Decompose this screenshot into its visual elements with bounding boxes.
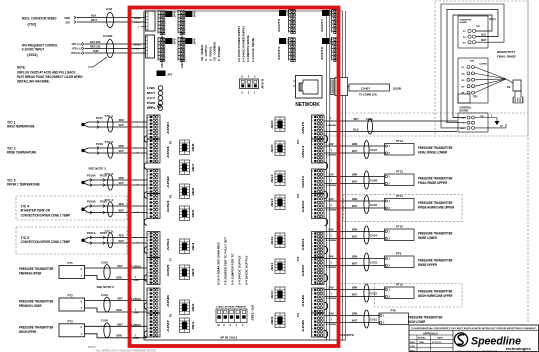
node signal legend [200,42,221,61]
wire probe [475,79,506,86]
svg-text:SEE NOTE 2: SEE NOTE 2 [97,285,115,289]
jumper JB11 [272,259,285,274]
jumper JB8 [180,140,196,155]
svg-text:P220A: P220A [87,200,96,204]
terminal block AIN2 [147,169,170,194]
wire jumper hook [144,192,147,199]
terminal block AIN6 [147,288,170,313]
svg-text:TRANSMITTER: TRANSMITTER [460,19,472,22]
connector P8 [170,313,173,317]
wire network bus [327,9,330,341]
wire jumper hook [144,275,147,282]
wire BRN PT3 [85,334,148,341]
svg-text:JP3: JP3 [174,11,177,18]
connector KS1 [149,104,162,109]
svg-text:JB16: JB16 [272,119,274,129]
svg-text:PAST BREAK POINT. RECONNECT CA: PAST BREAK POINT. RECONNECT CA205 WHEN [17,75,83,79]
svg-text:CA24: CA24 [370,234,377,238]
wire RED 202 [85,45,146,49]
svg-text:CA28: CA28 [370,179,377,183]
cable T/C 4 [105,198,114,217]
wire RED T/C 1 [88,118,147,124]
svg-text:PT2: PT2 [68,294,73,298]
svg-text:JB8: JB8 [193,142,195,152]
svg-text:AGND: AGND [134,44,141,47]
cable CA20 [101,319,110,338]
svg-text:P221A: P221A [87,231,96,235]
wire BLK 200 [85,40,146,44]
svg-text:24V: 24V [329,173,335,176]
svg-text:AIN1: AIN1 [167,144,170,158]
cable CA8 [106,7,114,28]
svg-text:JB13: JB13 [272,197,274,207]
svg-text:RED: RED [119,144,124,148]
svg-text:24V: 24V [329,143,335,146]
svg-text:AIN14: AIN14 [302,145,305,158]
svg-text:JB7: JB7 [193,162,195,172]
wire jumper hook [325,191,328,199]
pressure transmitter PT3 [59,319,85,337]
svg-text:CONVECTION DRYER ZONE 2 TEMP.: CONVECTION DRYER ZONE 2 TEMP. [21,240,71,244]
svg-text:PRESSURE TRANSMITTER: PRESSURE TRANSMITTER [418,290,453,294]
svg-text:0-10VDC INPUT: 0-10VDC INPUT [22,47,45,51]
svg-text:24V: 24V [329,286,335,289]
jumper JB7 [180,160,196,175]
node PT9 label [418,259,453,268]
svg-text:4-20MA: 4-20MA [326,323,337,326]
svg-text:4-6 10VDC POWER SUPPLY: 4-6 10VDC POWER SUPPLY [237,26,241,62]
wire jumper hook [325,274,328,282]
svg-text:4-20MA: 4-20MA [131,266,142,269]
svg-text:INSTALLING MACHINE.: INSTALLING MACHINE. [17,80,50,84]
svg-text:IR HEATER TEMP OR: IR HEATER TEMP OR [21,209,51,213]
connector P217 [96,116,103,128]
svg-text:24V: 24V [329,255,335,258]
terminal block AIN8 [302,313,324,337]
svg-text:CA407: CA407 [361,86,370,90]
wire WHT CA26 [325,117,458,121]
terminal block AIN15 [302,115,324,139]
connector P221A [87,231,107,245]
node T/C 3 label [7,179,40,187]
svg-text:CA8: CA8 [106,7,112,11]
svg-text:P219A: P219A [87,174,96,178]
thermocouple junction T/C 3 [81,180,88,185]
svg-text:BLK: BLK [353,127,358,131]
svg-text:BRN: BRN [352,228,357,232]
svg-text:PT14: PT14 [396,139,403,143]
svg-text:SEE NOTE:: SEE NOTE: [340,333,355,337]
svg-text:4-20MA: 4-20MA [326,297,337,300]
node jumper legend [217,237,249,285]
svg-text:VFD (+)-3: VFD (+)-3 [71,43,82,46]
terminal block AIN13 [302,169,324,194]
wire BRN PT2 [85,308,148,315]
cable CA21 [364,310,377,328]
svg-text:1-2 LOCAL SENSE: 1-2 LOCAL SENSE [251,38,255,62]
wire WHT PT9 [325,262,385,270]
wire BLK [77,14,146,18]
node power supply legend [237,26,255,62]
svg-text:PRESSURE TRANSMITTER: PRESSURE TRANSMITTER [418,259,453,263]
pressure transmitter PT13 [385,170,415,186]
svg-text:WHT: WHT [353,117,359,121]
transmitter board BM-1 [458,16,496,48]
svg-text:PT12: PT12 [396,283,403,287]
wire jumper hook [144,247,147,254]
svg-text:-: - [137,178,138,182]
node PT10 label [418,232,453,241]
node PT2 label [19,300,54,309]
pressure transmitter PT2 [59,294,85,312]
svg-text:AIN3: AIN3 [167,199,170,213]
cable CA27 [364,141,377,159]
connector header AOUT6 [320,37,338,62]
svg-text:WHT: WHT [118,322,124,326]
cable CA26 [366,117,373,134]
svg-text:AIN5: AIN5 [167,263,170,277]
svg-text:BM-1: BM-1 [490,17,497,21]
pressure transmitter PT11 [385,194,415,210]
svg-text:LNK: LNK [147,86,156,90]
svg-text:0-10V: 0-10V [134,22,140,24]
svg-text:4P W 10AJ: 4P W 10AJ [220,336,238,340]
terminal block TB1 control [458,113,488,132]
svg-text:4-20MA: 4-20MA [131,298,142,301]
svg-text:MST: MST [147,91,156,95]
node PT12 label [418,290,453,299]
connector JP2-9 grid [240,75,265,95]
svg-text:PREWASH LOWER: PREWASH LOWER [19,304,42,308]
jumper JB4 [180,239,196,254]
control board label [460,107,472,113]
wire pwr 13 [475,124,506,128]
svg-text:WHT: WHT [119,123,125,127]
cable CA205 [103,34,114,58]
title block [409,325,539,352]
svg-text:CA22: CA22 [370,292,377,296]
connector header AOUT2 [178,37,197,68]
dashed option box [344,195,463,222]
svg-text:TB2: TB2 [473,96,478,99]
svg-text:+: + [137,183,139,187]
svg-text:PRESSURE TRANSMITTER: PRESSURE TRANSMITTER [19,300,54,304]
node VFD frequency control label [22,44,58,58]
svg-text:SEE NOTE 3: SEE NOTE 3 [89,167,107,171]
wire BRN PT12 [325,286,385,290]
svg-text:4-20MA: 4-20MA [326,209,337,212]
wire ground [475,115,500,126]
svg-text:WHT: WHT [352,204,358,208]
svg-text:P14: P14 [297,139,300,144]
connector header AOUT5 [277,9,295,34]
svg-text:4-20MA: 4-20MA [326,239,337,242]
svg-text:AOUT6: AOUT6 [320,46,324,60]
wire jumper hook [144,136,147,143]
svg-text:PT9: PT9 [396,252,401,256]
svg-text:JB14: JB14 [271,173,274,183]
svg-text:JP7: JP7 [287,10,290,17]
svg-text:WHT: WHT [352,262,358,266]
svg-text:BRN: BRN [352,173,357,177]
wire BLK transmitter [481,34,486,37]
jumper JB15 [272,141,285,156]
cable CA24 [364,226,377,244]
svg-text:NETWORK: NETWORK [295,102,320,108]
wire WHT PT10 [325,235,385,243]
svg-text:24V: 24V [329,228,335,231]
svg-text:4-20MA: 4-20MA [326,184,337,187]
svg-text:ALL WIRES 22 GA UNLESS OTHERWI: ALL WIRES 22 GA UNLESS OTHERWISE NOTED [96,349,156,352]
svg-text:MSC1, CONVEYOR SPEED: MSC1, CONVEYOR SPEED [22,16,57,20]
svg-text:AIN8: AIN8 [302,318,305,332]
wire probe [475,73,506,79]
wire BRN PT1 [85,275,148,282]
svg-text:P - POWER: P - POWER [217,46,221,61]
node PT1 label [19,267,54,276]
wire WHT PT2 [85,297,148,302]
node PT14 label [418,146,453,155]
svg-text:PRESSURE TRANSMITTER: PRESSURE TRANSMITTER [408,316,443,320]
svg-text:P12: P12 [297,256,300,261]
svg-text:JB2: JB2 [193,302,195,312]
svg-text:WASH TEMPERATURE: WASH TEMPERATURE [7,125,35,129]
svg-text:JP9: JP9 [330,10,333,17]
terminal block AIN10 [302,258,324,285]
wire WHT PT13 [325,180,385,188]
cable CA19 [101,293,110,312]
wire WHT PT6 [325,319,380,327]
svg-text:AIN10: AIN10 [302,263,305,276]
dashed option box [16,196,127,220]
svg-text:BRN: BRN [117,275,122,279]
svg-text:-: - [137,204,138,208]
svg-text:-: - [137,120,138,124]
wire BLK CA26 [325,124,458,131]
svg-text:BLK: BLK [91,14,96,18]
svg-text:WHT: WHT [119,181,125,185]
svg-text:WHT: WHT [119,149,125,153]
svg-text:CLR/RED: CLR/RED [479,64,488,66]
svg-text:AGND: AGND [134,17,141,20]
svg-text:CA20: CA20 [101,319,108,323]
terminal block TB2 [458,94,478,103]
connector header AOUT0 [158,37,177,68]
svg-text:(702): (702) [28,23,37,27]
svg-text:9-10 4-20MA 500 OHM RES: 9-10 4-20MA 500 OHM RES [217,242,221,285]
terminal block AIN5 [147,258,170,285]
note see note [340,333,355,337]
svg-text:FINAL RINSE: FINAL RINSE [497,55,516,59]
cable CA18 [101,260,110,279]
wire WHT PT12 [325,293,385,301]
wire note pointer [88,57,107,67]
terminal block AIN11 [302,232,324,258]
wire BRN PT10 [325,228,385,232]
pressure transmitter PT6 [379,309,409,325]
probe PE [506,79,523,103]
wire jumper hook [325,218,328,226]
connector VFD pins [71,43,84,56]
svg-text:AIN13: AIN13 [302,175,305,188]
thermocouple junction T/C 1 [81,122,88,127]
thermocouple junction T/C 5 [81,238,88,244]
connector header AOUT7 [320,9,338,34]
pressure transmitter PT14 [385,139,415,155]
node PT11 label [418,201,455,210]
jumper JB9 [272,313,285,328]
wire jumper hook [144,163,147,170]
cable CA22 [364,284,377,302]
svg-text:CA25: CA25 [370,203,377,207]
svg-text:BRN: BRN [117,308,122,312]
svg-text:JB1: JB1 [193,320,195,330]
svg-text:WHT: WHT [119,209,125,213]
node T/C 5 label [21,236,71,244]
wire WHT transmitter [481,39,487,42]
wire jumper hook [325,135,328,143]
wire probe [475,78,506,81]
svg-text:24V: 24V [134,279,140,282]
svg-text:JB9: JB9 [272,315,274,325]
svg-text:JB5: JB5 [193,208,195,218]
node T/C 2 label [7,147,37,155]
svg-text:BOARD: BOARD [460,110,469,113]
svg-text:PT3: PT3 [68,319,73,323]
svg-text:CA18: CA18 [101,260,108,264]
svg-text:JB6: JB6 [193,186,195,196]
connector P6 [170,194,173,198]
svg-text:WHT: WHT [352,235,358,239]
cable CA25 [364,196,377,214]
wire BRN PT9 [325,255,385,259]
wire WHT PT11 [325,204,385,212]
connector GND/SIG pins [64,16,76,25]
wire SHD [85,49,146,53]
connector header AOUT1 [158,10,177,41]
jumper JB2 [180,300,196,315]
wire WHT T/C 2 [88,149,147,155]
dashed enclosure final rinse [435,1,528,136]
wire RED T/C 4 [88,202,147,208]
svg-text:WHT: WHT [118,264,124,268]
node T/C 4 label [21,205,71,218]
wire jumper hook [144,303,147,310]
svg-text:T/C 4: T/C 4 [105,198,114,202]
svg-text:JB3: JB3 [193,267,195,277]
svg-text:+: + [137,151,139,155]
svg-text:CONVECTION DRYER ZONE 1 TEMP.: CONVECTION DRYER ZONE 1 TEMP. [21,214,71,218]
svg-text:JB1-16: JB1-16 [251,304,255,321]
svg-text:TO COMM JCN: TO COMM JCN [359,93,377,96]
svg-text:5-6 JUMPER FOR TC: 5-6 JUMPER FOR TC [231,253,235,285]
svg-text:RINSE TEMPERATURE: RINSE TEMPERATURE [7,151,37,155]
page border dashed [527,1,529,322]
svg-text:AIN6: AIN6 [167,293,170,307]
svg-text:PRESSURE TRANSMITTER: PRESSURE TRANSMITTER [19,325,54,329]
cable T/C 1 [105,114,114,132]
svg-text:PT6: PT6 [391,309,396,313]
svg-text:RINSE LOWER: RINSE LOWER [418,236,437,240]
wire RED T/C 3 [88,176,147,182]
svg-text:CA27: CA27 [370,148,377,152]
terminal block AIN3 [147,194,170,219]
svg-text:BRN: BRN [352,255,357,259]
svg-text:GND: GND [64,16,70,20]
wire WHT T/C 5 [88,239,147,245]
svg-text:P13: P13 [297,193,300,198]
svg-text:4-20MA: 4-20MA [326,266,337,269]
svg-text:ODD-EVEN PAIRS: ODD-EVEN PAIRS [216,305,248,308]
connector P7 [170,257,173,261]
svg-text:PREWASH UPPER: PREWASH UPPER [19,272,42,276]
wire WHT PT1 [85,264,148,269]
terminal block AIN0 [147,115,170,139]
svg-text:JB12: JB12 [272,235,274,245]
node PT13 label [418,177,453,186]
svg-text:BLK: BLK [481,34,486,37]
svg-text:CA26: CA26 [366,117,373,121]
svg-text:PWR: PWR [147,101,156,105]
svg-text:AOUT0: AOUT0 [161,59,164,68]
terminal block AIN12 [302,194,324,219]
svg-text:WHT: WHT [352,149,358,153]
svg-text:BLK 200: BLK 200 [90,40,101,44]
connector P14 [297,139,300,144]
note bottom left [88,345,156,352]
wire probe [475,67,506,79]
wire jumper hook [325,246,328,254]
connector P218 [96,142,103,154]
wire jumper hook [325,302,328,310]
svg-text:JB10: JB10 [272,289,274,299]
svg-text:AIN4: AIN4 [167,237,170,251]
terminal block AIN1 [147,139,170,163]
wire BRN PT14 [325,142,385,146]
svg-text:NOTE:: NOTE: [88,345,96,349]
wire BRN PT6 [325,312,380,316]
wire WHT T/C 3 [88,181,147,187]
jumper JB12 [272,233,285,248]
svg-text:2-4 REMOTE SENSE: 2-4 REMOTE SENSE [246,35,250,62]
dashed option box [340,284,462,308]
svg-text:PT13: PT13 [396,170,403,174]
control board outline [144,11,346,340]
svg-text:PT10: PT10 [396,225,403,229]
svg-text:CA21: CA21 [370,318,377,322]
terminal block TB3 [458,58,488,103]
svg-text:BRN: BRN [352,312,357,316]
wire RED T/C 2 [88,144,147,150]
svg-text:ACT: ACT [147,96,156,100]
terminal block AIN14 [302,139,324,163]
node status LEDs [147,86,163,111]
svg-text:P11: P11 [297,312,300,317]
wire jumper hook [144,219,147,226]
svg-text:CN - COMMON: CN - COMMON [213,42,217,61]
pressure transmitter PT9 [385,252,415,268]
connector P5 [170,140,173,144]
svg-text:FINAL RINSE UPPER: FINAL RINSE UPPER [418,181,448,185]
svg-text:3-4 24VDC SUPPLY: 3-4 24VDC SUPPLY [238,255,242,285]
svg-text:UNPLUG CA205 AT ACD1 AND PULL: UNPLUG CA205 AT ACD1 AND PULL BACK [17,71,76,75]
thermocouple junction T/C 4 [81,206,88,213]
svg-text:PRESSURE TRANSMITTER: PRESSURE TRANSMITTER [418,177,453,181]
svg-text:RED 202: RED 202 [90,45,101,49]
connector P219A [87,174,107,187]
svg-text:CA19: CA19 [101,293,108,297]
svg-text:24V: 24V [329,198,335,201]
